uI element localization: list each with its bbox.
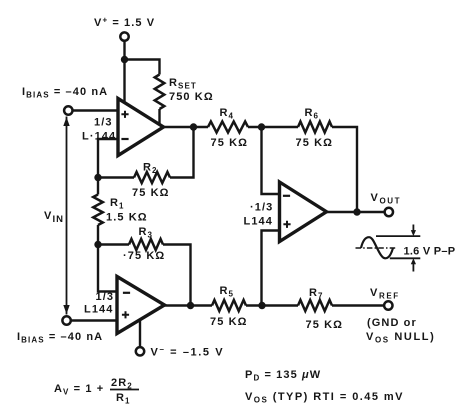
svg-text:L144: L144 [244, 216, 273, 228]
junction dot R2/R1 node [94, 174, 101, 181]
svg-text:·1/3: ·1/3 [250, 202, 273, 214]
svg-text:VIN: VIN [44, 210, 64, 225]
svg-text:2R2: 2R2 [111, 377, 133, 391]
wire U2 output row [165, 304, 213, 306]
svg-text:1/3: 1/3 [96, 291, 115, 303]
op-amp U3 minus input symbol [283, 195, 290, 197]
svg-text:L144: L144 [84, 304, 113, 316]
wire R4 to summing node [248, 126, 298, 128]
svg-text:R7: R7 [309, 287, 324, 301]
wire U1 inverting input to R2 node [98, 139, 118, 178]
op-amp U1 (1/3 L144 top) [118, 99, 164, 156]
wire summing node down to U3 inverting input [262, 127, 280, 194]
svg-text:IBIAS = –40 nA: IBIAS = –40 nA [17, 331, 103, 345]
op-amp U2 plus input symbol [122, 311, 129, 318]
wire V+ junction to RSET top [125, 60, 160, 75]
svg-text:1.6 V P–P: 1.6 V P–P [404, 246, 456, 258]
terminal VOUT [385, 208, 393, 216]
dimension arrow up to trough [412, 264, 414, 272]
terminal IBIAS top [64, 106, 72, 114]
svg-text:R2: R2 [143, 162, 158, 176]
svg-text:V+ = 1.5 V: V+ = 1.5 V [94, 16, 155, 30]
op-amp U2 (1/3 L144 bottom) [117, 277, 165, 334]
terminal IBIAS bottom [62, 316, 70, 324]
resistor RSET [155, 75, 165, 110]
svg-text:AV = 1 +: AV = 1 + [54, 383, 104, 397]
svg-text:1.5 KΩ: 1.5 KΩ [106, 212, 148, 224]
svg-text:R6: R6 [305, 107, 320, 121]
svg-text:75 KΩ: 75 KΩ [296, 137, 334, 149]
resistor R7 [298, 300, 332, 311]
resistor R3 [129, 239, 163, 250]
svg-text:(GND or: (GND or [367, 317, 417, 329]
wire IBIAS bottom input [71, 319, 117, 321]
svg-text:R3: R3 [139, 226, 154, 240]
resistor R1 [93, 195, 103, 226]
svg-text:R5: R5 [220, 285, 235, 299]
wire R6 to output node [332, 127, 357, 212]
svg-text:75 KΩ: 75 KΩ [306, 319, 344, 331]
op-amp U1 minus input symbol [121, 138, 128, 140]
op-amp U2 minus input symbol [123, 292, 130, 294]
svg-text:VREF: VREF [370, 287, 400, 301]
wire R7 to VREF [332, 304, 384, 306]
wire R5 to R7 node [246, 304, 298, 306]
resistor R4 [208, 122, 248, 133]
svg-text:VOS (TYP) RTI = 0.45 mV: VOS (TYP) RTI = 0.45 mV [245, 391, 404, 405]
wire R2 right lead up to U1 output [170, 127, 194, 178]
arrowhead VIN bottom [63, 305, 69, 314]
terminal V+ [120, 32, 128, 40]
wire R2 left lead [98, 176, 134, 178]
junction dot R5/R7 node [258, 302, 265, 309]
wire IBIAS top input [73, 109, 118, 111]
svg-text:R1: R1 [116, 392, 131, 406]
op-amp U3 (1/3 L144 output) [280, 182, 327, 242]
dimension arrow down to peak [412, 225, 414, 232]
svg-text:·75 KΩ: ·75 KΩ [123, 250, 165, 262]
wire R3 node down to U2 inverting input [98, 245, 117, 292]
svg-text:75 KΩ: 75 KΩ [211, 137, 249, 149]
wire R3 right lead down to U2 output [163, 245, 191, 306]
wire U1 output row [164, 126, 209, 128]
svg-text:R4: R4 [220, 107, 235, 121]
wire main inverting bus (R1 column) [97, 178, 99, 195]
svg-text:PD = 135 μW: PD = 135 μW [245, 369, 321, 383]
junction dot R3/R1 node [94, 241, 101, 248]
terminal V- [136, 347, 144, 355]
junction dot V+ node [121, 56, 128, 63]
resistor R2 [134, 172, 170, 183]
junction dot R4/R6 node [258, 123, 265, 130]
wire RSET bottom lead [158, 109, 160, 125]
dimension tick bottom (trough level) [390, 257, 421, 259]
svg-text:R1: R1 [110, 197, 125, 211]
svg-text:VOUT: VOUT [371, 192, 402, 206]
svg-text:V– = –1.5 V: V– = –1.5 V [151, 345, 225, 359]
svg-text:750 KΩ: 750 KΩ [169, 91, 214, 103]
svg-text:75 KΩ: 75 KΩ [132, 187, 170, 199]
resistor R6 [298, 122, 332, 133]
wire U3 output to VOUT [327, 211, 385, 213]
junction dot output/R6 [353, 208, 360, 215]
dimension tick top (peak level) [376, 235, 420, 237]
op-amp U1 plus input symbol [121, 111, 128, 118]
op-amp U3 plus input symbol [283, 221, 290, 228]
svg-text:RSET: RSET [169, 77, 197, 91]
terminal VREF [384, 301, 392, 309]
junction dot U2 output [187, 302, 194, 309]
svg-text:1/3: 1/3 [94, 117, 113, 129]
wire V+ vertical to op-amp U1 power edge [123, 41, 125, 104]
sine wave symbol [361, 237, 393, 258]
junction dot U1 output [190, 123, 197, 130]
wire V- lead [139, 316, 141, 347]
wire U3 non-inverting input down to R5/R7 node [262, 231, 280, 306]
svg-text:VOS NULL): VOS NULL) [366, 331, 435, 345]
wire R3 left lead [98, 243, 129, 245]
node sine-wave annotation centerline [356, 247, 397, 249]
dimension arrow VIN line [66, 117, 68, 315]
resistor R5 [212, 300, 246, 311]
arrowhead VIN top [63, 117, 69, 126]
svg-text:75 KΩ: 75 KΩ [210, 316, 248, 328]
svg-text:IBIAS = –40 nA: IBIAS = –40 nA [22, 86, 108, 100]
wire R1 bottom lead to R3 node [97, 225, 99, 245]
